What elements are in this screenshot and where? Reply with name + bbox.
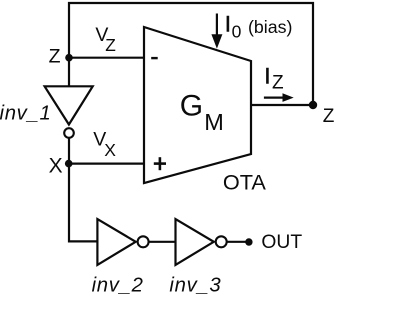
wire node X down and right to inv_2 input <box>69 164 97 241</box>
wire VZ from node Z to OTA minus input <box>68 57 145 59</box>
wire top feedback from node Z left to node Z right <box>69 3 313 105</box>
inverter inv_2 (triangle with bubble) <box>97 219 135 265</box>
bias current arrow I0 into OTA top edge <box>216 14 218 39</box>
svg-text:X: X <box>104 140 116 160</box>
svg-text:inv_2: inv_2 <box>92 275 144 297</box>
svg-text:M: M <box>204 109 224 135</box>
wire inv_3 bubble to OUT node <box>227 241 249 243</box>
wire VX from node X to OTA plus input <box>68 163 145 165</box>
inverter inv_3 (triangle with bubble) <box>176 219 214 265</box>
wire inv_1 bubble to node X <box>68 138 70 165</box>
inverter inv_1 (triangle pointing down with bubble) <box>45 86 93 124</box>
OTA GM body (trapezoid) <box>144 27 251 183</box>
svg-text:I: I <box>264 63 270 88</box>
svg-text:Z: Z <box>49 45 61 67</box>
svg-text:Z: Z <box>105 35 116 55</box>
svg-text:OTA: OTA <box>223 170 267 195</box>
svg-text:G: G <box>180 89 203 122</box>
output current arrow IZ <box>264 96 285 98</box>
svg-text:OUT: OUT <box>261 232 302 253</box>
node X (junction dot) <box>65 160 73 168</box>
node Z right (junction dot) <box>309 101 317 109</box>
svg-text:X: X <box>49 155 63 178</box>
wire node Z down to inverter inv_1 input <box>68 58 70 88</box>
OTA plus input sign <box>154 157 166 170</box>
svg-text:inv_3: inv_3 <box>169 275 221 297</box>
svg-text:Z: Z <box>272 72 284 93</box>
svg-text:I: I <box>225 12 231 37</box>
node Z left (junction dot) <box>65 54 73 62</box>
svg-text:(bias): (bias) <box>248 17 292 37</box>
svg-text:Z: Z <box>323 106 335 127</box>
node OUT (terminal dot) <box>245 238 252 245</box>
svg-text:inv_1: inv_1 <box>0 102 52 124</box>
svg-text:0: 0 <box>232 21 242 41</box>
OTA minus input sign <box>151 57 158 59</box>
wire inv_2 bubble to inv_3 input <box>149 241 177 243</box>
wire OTA output to node Z right <box>251 104 313 106</box>
